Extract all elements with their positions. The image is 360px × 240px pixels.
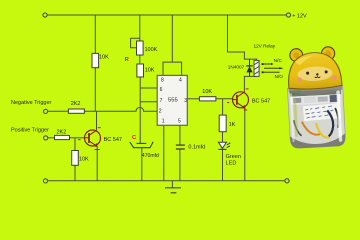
- wire 555 pin1 to bottom rail: [163, 125, 165, 181]
- wire relay bottom to Q2 collector: [244, 76, 256, 92]
- svg-text:6: 6: [160, 87, 163, 93]
- wire pos trigger to 2K2: [48, 137, 55, 139]
- svg-text:1K: 1K: [229, 122, 236, 128]
- resistor R4 10K body: [72, 151, 79, 166]
- wire neg trigger to 2K2: [48, 110, 69, 112]
- svg-text:10K: 10K: [79, 157, 89, 163]
- wire rail to relay staircase: [228, 15, 257, 60]
- wire pin7 stub: [140, 101, 157, 103]
- svg-text:1: 1: [162, 119, 165, 125]
- jar seam under head: [288, 84, 342, 96]
- transistor Q2 BC547: [227, 89, 249, 110]
- svg-text:10K: 10K: [145, 67, 155, 73]
- jar contents board: [290, 89, 341, 97]
- svg-text:470mfd: 470mfd: [142, 153, 159, 159]
- photo: bear jar overlay: [286, 46, 346, 149]
- resistor R5 10K body (pin3): [199, 97, 216, 101]
- svg-text:+ 12V: + 12V: [292, 13, 307, 19]
- IC U1 555: [157, 75, 187, 125]
- bear face patch: [297, 66, 333, 82]
- wire R2 bottom down to cap C: [139, 77, 141, 143]
- resistor R6 1K body: [219, 115, 226, 132]
- wire pot to R2: [139, 55, 141, 64]
- jar highlight: [336, 90, 342, 142]
- jar label: [303, 103, 341, 121]
- node +12V terminal right: [286, 13, 290, 17]
- node bottom terminal left: [43, 179, 47, 183]
- wire R5 to Q2 base: [216, 98, 232, 100]
- jar wires: [302, 121, 321, 136]
- wire junction down to R4 10K: [74, 138, 76, 151]
- svg-text:N/O: N/O: [275, 74, 284, 79]
- wire rail to 555 supply bridge: [171, 15, 173, 62]
- svg-text:2: 2: [159, 108, 162, 114]
- svg-text:LED: LED: [226, 161, 237, 167]
- wire Q1 emitter down: [96, 146, 98, 181]
- svg-text:8: 8: [161, 78, 164, 84]
- svg-text:7: 7: [160, 98, 163, 104]
- ground bar1: [165, 187, 181, 189]
- wire R1 bottom to pin2 node: [94, 68, 96, 112]
- wire 555 pin5 down to 0.1mfd: [179, 125, 181, 145]
- svg-text:BC 547: BC 547: [104, 137, 122, 143]
- node positive trigger terminal: [44, 136, 48, 140]
- wire 555 pins 8,4 bridge: [163, 62, 182, 75]
- wire Q2 emitter down: [244, 108, 246, 181]
- wire R6 to LED: [222, 132, 224, 143]
- bear right ear: [321, 47, 335, 61]
- svg-text:3: 3: [184, 98, 187, 104]
- relay contacts: [262, 63, 284, 74]
- resistor R1 10K body: [92, 53, 99, 67]
- wire pot wiper loop: [131, 38, 140, 48]
- svg-text:0.1mfd: 0.1mfd: [188, 145, 205, 151]
- svg-text:10K: 10K: [99, 54, 109, 60]
- ground bar2: [171, 192, 177, 194]
- svg-text:4: 4: [179, 78, 182, 84]
- svg-text:Negative Trigger: Negative Trigger: [11, 100, 52, 106]
- node bottom terminal right: [285, 179, 289, 183]
- bear eyes: [306, 72, 309, 75]
- resistor 2K2 body (negative trigger): [68, 109, 84, 113]
- jar bottom rim: [290, 133, 346, 148]
- svg-text:555: 555: [168, 98, 178, 104]
- resistor R2 10K body: [137, 64, 144, 77]
- wire LED to bottom rail: [222, 149, 224, 180]
- capacitor C 470mfd: [130, 142, 153, 148]
- svg-text:5: 5: [178, 119, 181, 125]
- wire bottom rail: [47, 180, 285, 182]
- wire pin3 to R5: [187, 98, 199, 100]
- wire 2K2 to 555 pin2 with hop: [84, 107, 157, 111]
- transistor Q1 BC547: [78, 128, 101, 150]
- svg-text:12V Relay: 12V Relay: [254, 43, 276, 48]
- jar body: [288, 86, 346, 148]
- bear head: [287, 51, 342, 90]
- svg-text:2K2: 2K2: [57, 130, 67, 136]
- LED green symbol: [218, 142, 230, 149]
- svg-text:1N4007: 1N4007: [228, 64, 245, 69]
- capacitor 0.1mfd plates: [176, 145, 185, 149]
- wire R4 to bottom rail: [74, 165, 76, 181]
- svg-text:BC 547: BC 547: [252, 99, 270, 105]
- bear cheeks: [297, 77, 302, 82]
- svg-text:N/C: N/C: [274, 58, 283, 63]
- bear nose and mouth: [316, 73, 319, 76]
- wire pin6 stub: [140, 87, 157, 89]
- svg-text:Positive Trigger: Positive Trigger: [11, 128, 49, 134]
- wire 0.1mfd to bottom rail: [179, 149, 181, 181]
- diode D1 1N4007: [246, 59, 253, 76]
- node supply terminal left: [43, 13, 47, 17]
- wire cap C to bottom rail: [141, 148, 143, 181]
- relay coil K1: [254, 60, 259, 76]
- resistor 2K2 body (positive trigger): [55, 135, 70, 139]
- svg-text:Green: Green: [226, 154, 241, 160]
- svg-text:10K: 10K: [202, 89, 212, 95]
- wire rail to pot 100K: [139, 15, 141, 41]
- wire rail to R1 10K: [94, 15, 96, 53]
- svg-text:2K2: 2K2: [71, 101, 81, 107]
- wire junction down to R6 1K: [222, 99, 224, 115]
- bear left ear: [290, 48, 303, 61]
- ground stem: [171, 181, 173, 188]
- svg-text:100K: 100K: [145, 47, 158, 53]
- wire 2K2 to Q1 base: [70, 137, 85, 139]
- wire top rail: [47, 14, 286, 16]
- node negative trigger terminal: [44, 109, 48, 113]
- potentiometer 100K body: [137, 41, 144, 55]
- wire Q1 collector up: [96, 111, 98, 130]
